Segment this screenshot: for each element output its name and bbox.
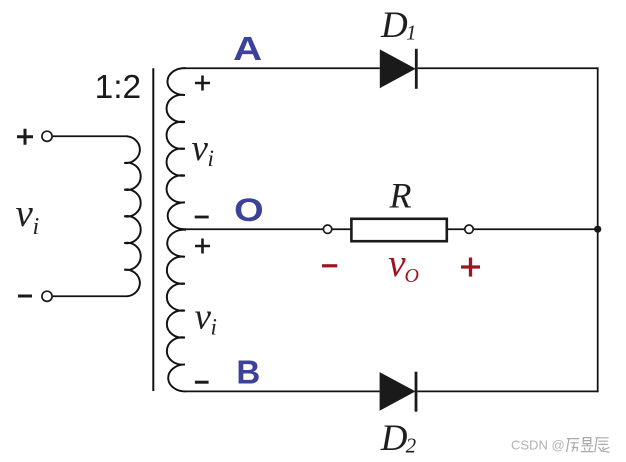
- svg-text:D: D: [380, 418, 408, 459]
- watermark hanzi 辰: [595, 438, 610, 452]
- wire from D2 cathode to right rail: [417, 390, 598, 392]
- watermark hanzi 厉: [567, 439, 580, 452]
- junction dot on right rail: [594, 226, 601, 233]
- svg-text:CSDN @: CSDN @: [511, 437, 565, 452]
- diode D1 cathode bar: [415, 49, 418, 89]
- plus sign output red: [461, 258, 480, 277]
- wire left terminal to resistor: [332, 228, 352, 230]
- svg-text:1: 1: [406, 21, 417, 45]
- terminal + input circle: [42, 131, 52, 141]
- svg-text:v: v: [16, 192, 34, 235]
- minus sign secondary lower: [195, 381, 209, 384]
- wire node A top from secondary to diode D1: [186, 67, 380, 69]
- wire node B bottom from secondary to diode D2: [186, 390, 380, 392]
- terminal output right circle: [465, 225, 473, 233]
- resistor R body: [351, 219, 446, 241]
- minus sign input: [18, 295, 32, 298]
- svg-text:v: v: [192, 128, 209, 169]
- terminal - input circle: [42, 291, 52, 301]
- plus sign secondary lower: [195, 239, 210, 254]
- wire from D1 cathode to right rail: [418, 67, 599, 69]
- svg-text:D: D: [380, 5, 408, 46]
- svg-text:O: O: [234, 192, 264, 228]
- inductor secondary upper winding: [167, 68, 186, 229]
- svg-text:A: A: [233, 30, 262, 67]
- svg-text:O: O: [405, 265, 419, 287]
- svg-text:i: i: [33, 214, 40, 240]
- watermark hanzi 昱: [581, 438, 594, 452]
- transformer core: [152, 68, 154, 391]
- svg-text:1:2: 1:2: [95, 69, 142, 106]
- diode D1 triangle: [380, 49, 416, 88]
- wire from - input terminal to primary: [52, 295, 127, 297]
- svg-text:B: B: [236, 353, 260, 390]
- minus sign secondary upper: [195, 216, 209, 219]
- wire right terminal to junction on rail: [473, 228, 597, 230]
- diode D2 cathode bar: [415, 372, 418, 412]
- wire node O center tap to left output terminal: [186, 228, 324, 230]
- terminal output left circle: [323, 225, 331, 233]
- wire resistor to right terminal: [447, 228, 465, 230]
- svg-text:R: R: [389, 175, 412, 215]
- svg-text:2: 2: [406, 433, 417, 457]
- svg-text:v: v: [195, 296, 212, 337]
- plus sign secondary upper: [195, 76, 210, 91]
- diode D2 triangle: [380, 372, 416, 411]
- minus sign output red: [322, 264, 337, 267]
- wire from + input terminal to primary: [52, 135, 128, 137]
- wire right vertical rail: [597, 67, 599, 392]
- inductor secondary lower winding: [167, 230, 186, 392]
- svg-text:i: i: [208, 146, 214, 171]
- svg-text:i: i: [211, 315, 217, 340]
- plus sign input: [17, 129, 33, 145]
- inductor primary winding: [124, 136, 140, 296]
